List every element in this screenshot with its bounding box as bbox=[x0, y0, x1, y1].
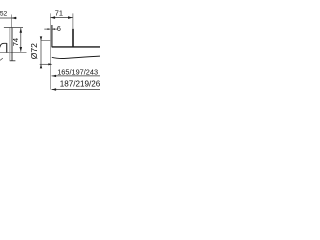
centerline bbox=[0, 51, 27, 53]
tube top line bbox=[52, 46, 100, 48]
knob bar bbox=[72, 29, 74, 47]
top horizontal line bbox=[4, 27, 23, 29]
break diagonal bbox=[0, 58, 3, 60]
dim 52 extension bbox=[10, 15, 12, 28]
dim 74 line bbox=[20, 28, 22, 52]
dim 187 arrow bbox=[52, 88, 57, 90]
svg-text:6: 6 bbox=[57, 24, 61, 33]
wall foot bbox=[10, 60, 16, 62]
dia 72 arrow down (top) bbox=[40, 36, 42, 40]
dim 52 arrow bbox=[11, 17, 16, 20]
dim 6 left line + arrow bbox=[44, 28, 50, 30]
dim 71 right arrow bbox=[68, 16, 73, 19]
knob end dark bar bbox=[6, 43, 8, 53]
dim 6 right line + arrow bbox=[52, 28, 58, 30]
svg-text:165/197/243: 165/197/243 bbox=[57, 68, 98, 77]
svg-text:71: 71 bbox=[55, 9, 63, 18]
svg-text:74: 74 bbox=[11, 38, 20, 46]
svg-text:52: 52 bbox=[0, 10, 8, 17]
flange dark line bbox=[51, 25, 53, 47]
dim 52 line bbox=[0, 17, 17, 19]
knob extension bbox=[72, 13, 74, 28]
dia 72 stub B + arrow bbox=[40, 63, 52, 65]
wall light line bbox=[9, 28, 11, 61]
dia 72 stub A bbox=[41, 40, 50, 42]
dim 71 left arrow bbox=[50, 16, 55, 19]
svg-text:Ø72: Ø72 bbox=[29, 43, 39, 59]
dim 74 arrow down bbox=[20, 47, 23, 52]
knob rounded corner arc + top edge bbox=[0, 43, 7, 47]
dia 72 vertical bbox=[40, 37, 42, 67]
belly curve bbox=[52, 56, 100, 58]
svg-text:187/219/265: 187/219/265 bbox=[60, 79, 100, 88]
wall dark line bbox=[11, 28, 13, 61]
dim 165 arrow bbox=[52, 75, 57, 77]
dim 74 arrow up bbox=[20, 28, 23, 33]
dia 72 arrow up (bottom) bbox=[40, 64, 42, 68]
dim 165 line bbox=[52, 75, 101, 77]
wall face extension (long) bbox=[50, 13, 52, 89]
dim 187 line bbox=[52, 89, 101, 91]
dim 71 line bbox=[50, 17, 73, 19]
